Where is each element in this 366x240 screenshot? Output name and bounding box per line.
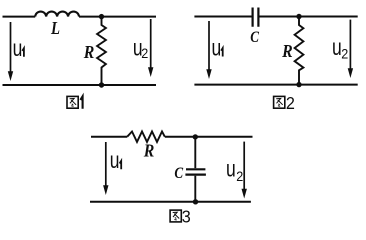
- wire: fig2 top-right segment: [258, 16, 357, 18]
- wire: fig1 bottom wire: [3, 84, 157, 86]
- svg-text:3: 3: [182, 207, 191, 227]
- arrow u2 fig1: [150, 19, 152, 68]
- svg-text:u: u: [226, 157, 236, 182]
- caption fig1: hanzi "tu" box: [67, 96, 78, 108]
- svg-text:C: C: [174, 165, 183, 182]
- arrow u2 fig3: [243, 142, 245, 190]
- svg-text:2: 2: [341, 46, 348, 62]
- node: fig3 bottom junction dot: [193, 199, 198, 204]
- svg-text:R: R: [143, 141, 155, 161]
- svg-text:L: L: [50, 17, 60, 38]
- arrow u2 fig2: [349, 20, 351, 69]
- wire: fig2 bottom wire: [194, 84, 357, 86]
- node: fig2 bottom junction dot: [296, 82, 301, 87]
- node: fig1 top junction dot: [99, 14, 104, 19]
- node: fig2 top junction dot: [296, 14, 301, 19]
- svg-text:C: C: [250, 29, 259, 46]
- capacitor C (shunt) fig3: [194, 137, 196, 168]
- wire: fig3 top-left segment: [91, 136, 127, 138]
- svg-text:u: u: [110, 149, 120, 174]
- svg-text:2: 2: [236, 168, 243, 184]
- node: fig3 top junction dot: [193, 134, 198, 139]
- wire: fig2 top-left segment: [194, 16, 252, 18]
- svg-text:u: u: [332, 36, 342, 61]
- wire: fig3 top-right segment: [165, 136, 253, 138]
- resistor R (horizontal zigzag) fig3: [127, 132, 165, 142]
- resistor R (vertical zigzag) fig2: [295, 17, 304, 85]
- caption fig3: hanzi "tu" box: [170, 210, 181, 222]
- svg-text:2: 2: [286, 93, 295, 113]
- capacitor C (series plates): [253, 8, 259, 27]
- arrow u1 fig1: [10, 22, 12, 72]
- svg-text:R: R: [83, 42, 95, 62]
- arrow u1 fig2: [208, 21, 210, 70]
- caption fig2: hanzi "tu" box: [274, 96, 285, 108]
- wire: fig1 top-left segment: [3, 16, 36, 18]
- inductor L: [35, 12, 79, 17]
- svg-text:2: 2: [141, 46, 148, 62]
- arrow u1 fig3: [105, 142, 107, 186]
- svg-text:u: u: [212, 36, 222, 61]
- svg-text:u: u: [13, 37, 23, 62]
- svg-text:R: R: [281, 41, 293, 61]
- node: fig1 bottom junction dot: [99, 82, 104, 87]
- resistor R (vertical zigzag): [97, 17, 106, 85]
- wire: fig3 bottom wire: [90, 201, 251, 203]
- wire: fig1 top-right segment: [79, 16, 156, 18]
- caption fig1: digit 1: [80, 96, 82, 109]
